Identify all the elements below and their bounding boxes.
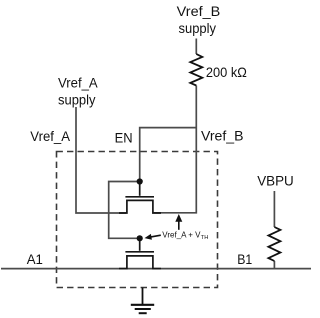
svg-text:Vref_A: Vref_A <box>30 128 70 144</box>
svg-text:200 kΩ: 200 kΩ <box>206 64 247 80</box>
svg-text:supply: supply <box>179 20 217 36</box>
svg-text:EN: EN <box>115 130 133 146</box>
svg-text:Vref_B: Vref_B <box>177 3 221 19</box>
svg-text:supply: supply <box>58 91 96 107</box>
svg-text:Vref_A + V: Vref_A + V <box>162 230 201 239</box>
svg-text:VBPU: VBPU <box>257 173 294 189</box>
svg-text:A1: A1 <box>27 251 43 267</box>
svg-text:Vref_A: Vref_A <box>58 75 98 91</box>
svg-text:B1: B1 <box>237 251 252 267</box>
svg-text:Vref_B: Vref_B <box>201 128 244 144</box>
svg-text:TH: TH <box>201 235 209 241</box>
